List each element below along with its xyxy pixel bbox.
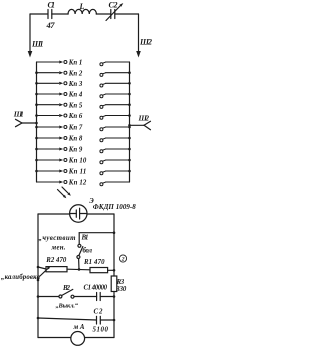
svg-text:бол: бол [83, 248, 93, 255]
svg-text:330: 330 [115, 286, 127, 293]
svg-text:Кп 12: Кп 12 [68, 180, 87, 187]
svg-text:Кп 1: Кп 1 [68, 60, 83, 67]
svg-text:Кп 3: Кп 3 [68, 81, 83, 88]
svg-text:R3: R3 [116, 279, 125, 286]
svg-text:47: 47 [46, 20, 56, 30]
svg-text:С2: С2 [94, 309, 104, 316]
svg-text:мен.: мен. [51, 245, 66, 252]
svg-text:Кп 4: Кп 4 [68, 92, 83, 99]
svg-text:5100: 5100 [93, 327, 109, 334]
svg-text:Кп 11: Кп 11 [68, 169, 87, 176]
svg-text:ФКДП 1009-8: ФКДП 1009-8 [93, 203, 137, 211]
svg-text:„калибровка: „калибровка [1, 274, 41, 281]
svg-text:Ш2: Ш2 [138, 114, 150, 123]
svg-text:2: 2 [121, 257, 125, 263]
svg-text:В1: В1 [81, 235, 89, 242]
svg-text:Кп 7: Кп 7 [68, 125, 83, 132]
svg-text:Кп 2: Кп 2 [68, 70, 83, 77]
svg-text:Кп 8: Кп 8 [68, 136, 83, 143]
svg-text:В2: В2 [62, 285, 71, 292]
svg-text:„чувствит: „чувствит [39, 235, 77, 242]
svg-text:мА: мА [73, 324, 85, 331]
svg-text:R1 470: R1 470 [83, 259, 105, 266]
svg-text:L: L [79, 2, 85, 11]
svg-text:„Выкл.“: „Выкл.“ [56, 303, 79, 310]
svg-text:Кп 5: Кп 5 [68, 102, 83, 109]
svg-text:Кп 10: Кп 10 [68, 158, 87, 165]
svg-text:С1 40000: С1 40000 [84, 285, 108, 292]
svg-text:Ш1: Ш1 [31, 40, 44, 49]
svg-text:C2: C2 [109, 1, 118, 10]
svg-text:C1: C1 [48, 1, 56, 10]
svg-text:Ш1: Ш1 [13, 110, 24, 119]
svg-text:Ш2: Ш2 [139, 38, 152, 47]
svg-text:Кп 6: Кп 6 [68, 113, 83, 120]
svg-text:R2 470: R2 470 [45, 257, 67, 264]
svg-text:Кп 9: Кп 9 [68, 147, 83, 154]
